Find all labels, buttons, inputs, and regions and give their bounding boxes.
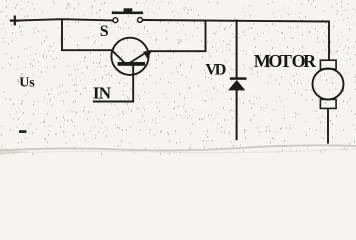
svg-text:IN: IN	[93, 84, 112, 103]
svg-text:MOTOR: MOTOR	[254, 51, 317, 71]
svg-text:Us: Us	[19, 76, 35, 91]
svg-text:S: S	[100, 23, 109, 40]
svg-text:VD: VD	[205, 61, 225, 78]
